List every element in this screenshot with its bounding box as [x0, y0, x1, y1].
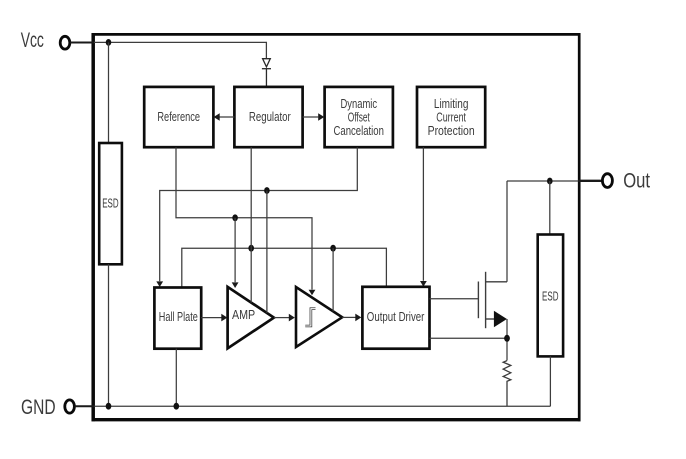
- wire drain up to Out net: [506, 181, 508, 282]
- wire Out net horizontal: [507, 180, 578, 182]
- wire ESD2 bottom to GND rail: [549, 356, 551, 406]
- svg-text:Reference: Reference: [157, 109, 200, 124]
- wire source down to node: [506, 319, 508, 361]
- wire Hall Plate to AMP arrow: [201, 317, 221, 319]
- node junction Out: [547, 178, 553, 185]
- svg-text:Regulator: Regulator: [249, 109, 291, 124]
- wire Regulator bottom through D1 to AMP slant: [250, 147, 252, 302]
- ESD block right: [538, 235, 563, 357]
- svg-text:Output Driver: Output Driver: [367, 309, 425, 324]
- node junction GND-HallPlate: [174, 403, 180, 410]
- wire Schmitt to Output Driver arrow: [342, 316, 355, 318]
- svg-text:GND: GND: [21, 396, 56, 419]
- ESD block left: [99, 143, 122, 264]
- svg-text:Vcc: Vcc: [21, 29, 44, 52]
- wire AMP to Schmitt arrow: [274, 317, 289, 319]
- svg-text:Out: Out: [623, 170, 650, 193]
- terminal GND: [65, 400, 75, 413]
- wire Regulator to DOC arrow: [303, 116, 319, 118]
- wire Vcc stub: [70, 42, 94, 44]
- transistor Q1 output MOSFET: [478, 272, 507, 328]
- block Hall Plate: [154, 288, 201, 349]
- wire Out stub: [578, 180, 602, 182]
- wire Hall Plate bottom to GND rail: [175, 349, 177, 407]
- wire Output Driver to MOSFET gate: [430, 298, 479, 300]
- block Reference: [144, 87, 213, 147]
- node junction on Vcc wire: [106, 39, 112, 46]
- svg-text:ESD: ESD: [542, 289, 559, 303]
- wire GND rail: [95, 405, 551, 407]
- wire D2 drop to Schmitt slant: [332, 248, 334, 311]
- wire net C: DOC bottom to Hall Plate top: [160, 147, 358, 281]
- wire LCP bottom to Output Driver top arrow: [422, 147, 424, 281]
- wire Out dot down to ESD2: [549, 181, 551, 235]
- terminal Out: [602, 174, 612, 188]
- wire GND stub: [75, 405, 95, 407]
- wire Output Driver lower output to node: [430, 337, 508, 339]
- terminal Vcc: [60, 36, 70, 49]
- node junction C: [264, 187, 270, 194]
- block Regulator: [234, 87, 302, 147]
- wire Vcc dot down to ESD1: [108, 42, 110, 143]
- wire Vcc rail to regulator diode: [94, 42, 266, 58]
- diode arrow at MOSFET source: [494, 311, 507, 328]
- wire net B: Reference bottom to AMP/Schmitt tops: [176, 147, 312, 289]
- svg-text:Protection: Protection: [428, 123, 475, 138]
- block Output Driver: [362, 287, 429, 349]
- wire B drop to AMP top arrow: [234, 218, 236, 282]
- block Limiting Current Protection: [417, 87, 485, 147]
- node junction D2: [330, 245, 336, 252]
- wire Regulator to Reference arrow: [220, 116, 235, 118]
- diode D1 above regulator: [262, 59, 271, 87]
- hysteresis step symbol: [305, 309, 315, 326]
- node junction D1: [248, 245, 254, 252]
- wire ESD1 bottom to GND rail: [108, 264, 110, 406]
- svg-text:AMP: AMP: [232, 307, 255, 322]
- wire C drop to AMP slant edge: [266, 191, 268, 314]
- outer IC boundary box: [92, 33, 581, 421]
- svg-text:ESD: ESD: [102, 196, 118, 210]
- node junction source: [504, 335, 510, 342]
- block Dynamic Offset Cancelation: [325, 87, 393, 147]
- node junction B: [232, 214, 238, 221]
- svg-text:Cancelation: Cancelation: [334, 123, 384, 138]
- node junction GND-ESD1: [106, 403, 112, 410]
- resistor R1 pull: [503, 361, 511, 407]
- comparator Schmitt trigger body: [296, 287, 342, 347]
- wire net D: horizontal bus to Output Driver: [182, 248, 387, 287]
- op-amp AMP body: [228, 287, 274, 349]
- svg-text:Hall Plate: Hall Plate: [159, 309, 198, 324]
